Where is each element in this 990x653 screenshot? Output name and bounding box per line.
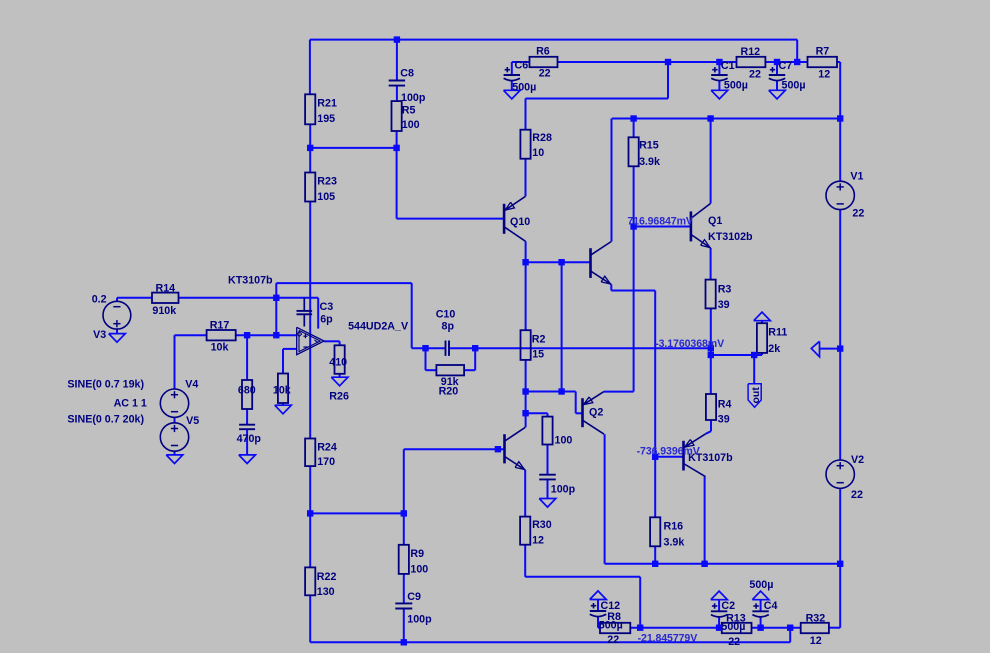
svg-text:500µ: 500µ (749, 579, 773, 591)
svg-text:R20: R20 (439, 385, 459, 397)
svg-text:R15: R15 (639, 140, 659, 152)
svg-text:C2: C2 (721, 600, 735, 612)
svg-text:680: 680 (238, 385, 256, 397)
svg-text:C9: C9 (407, 591, 421, 603)
svg-text:100p: 100p (551, 484, 576, 496)
svg-text:3.9k: 3.9k (639, 156, 660, 168)
svg-text:10k: 10k (211, 341, 229, 353)
svg-text:-3.1760368mV: -3.1760368mV (655, 338, 724, 350)
svg-text:SINE(0 0.7 20k): SINE(0 0.7 20k) (67, 414, 144, 426)
svg-text:R23: R23 (317, 176, 337, 188)
svg-text:12: 12 (532, 534, 544, 546)
svg-text:R14: R14 (156, 283, 176, 295)
svg-text:100: 100 (555, 435, 573, 447)
svg-text:C1: C1 (721, 60, 735, 72)
svg-text:R12: R12 (741, 46, 761, 58)
svg-text:500µ: 500µ (512, 81, 536, 93)
svg-text:C6: C6 (515, 59, 529, 71)
svg-text:39: 39 (718, 413, 730, 425)
svg-text:130: 130 (317, 586, 335, 598)
svg-text:22: 22 (852, 207, 864, 219)
svg-text:R26: R26 (329, 391, 349, 403)
svg-text:410: 410 (329, 356, 347, 368)
svg-text:C10: C10 (436, 309, 456, 321)
svg-text:R2: R2 (532, 333, 546, 345)
svg-text:6p: 6p (320, 314, 333, 326)
svg-text:12: 12 (818, 69, 830, 81)
svg-text:500µ: 500µ (724, 80, 748, 92)
svg-text:V4: V4 (185, 379, 198, 391)
svg-text:22: 22 (607, 634, 619, 646)
svg-text:470p: 470p (237, 433, 262, 445)
svg-text:R7: R7 (816, 46, 830, 58)
svg-text:R9: R9 (410, 548, 424, 560)
svg-text:Q2: Q2 (589, 407, 603, 419)
svg-text:Q1: Q1 (708, 215, 722, 227)
svg-text:Q10: Q10 (510, 216, 530, 228)
svg-text:R28: R28 (532, 132, 552, 144)
svg-text:10: 10 (532, 147, 544, 159)
svg-text:544UD2A_V: 544UD2A_V (348, 321, 409, 333)
svg-text:716.96847mV: 716.96847mV (627, 215, 692, 227)
svg-text:V1: V1 (850, 171, 863, 183)
svg-text:-736.9396mV: -736.9396mV (637, 445, 700, 457)
svg-text:15: 15 (532, 348, 544, 360)
svg-text:22: 22 (851, 489, 863, 501)
svg-text:R3: R3 (718, 284, 732, 296)
svg-text:C4: C4 (764, 600, 778, 612)
svg-text:195: 195 (317, 113, 335, 125)
svg-text:R24: R24 (317, 442, 337, 454)
svg-text:12: 12 (810, 635, 822, 647)
svg-text:10k: 10k (273, 385, 291, 397)
svg-text:V2: V2 (851, 454, 864, 466)
svg-text:KT3107b: KT3107b (228, 275, 273, 287)
svg-text:V3: V3 (93, 329, 106, 341)
svg-text:R6: R6 (536, 46, 550, 58)
svg-text:R21: R21 (317, 98, 337, 110)
svg-text:R17: R17 (210, 319, 230, 331)
svg-text:910k: 910k (152, 305, 176, 317)
svg-text:100: 100 (402, 119, 420, 131)
svg-text:R4: R4 (718, 398, 732, 410)
svg-text:R5: R5 (402, 105, 416, 117)
svg-text:500µ: 500µ (599, 619, 623, 631)
svg-text:170: 170 (317, 456, 335, 468)
svg-text:C8: C8 (400, 67, 414, 79)
svg-text:22: 22 (749, 69, 761, 81)
svg-text:8p: 8p (442, 321, 455, 333)
svg-text:AC 1 1: AC 1 1 (114, 398, 147, 410)
svg-text:100p: 100p (407, 613, 432, 625)
svg-text:100p: 100p (401, 92, 426, 104)
svg-text:R11: R11 (768, 326, 787, 338)
svg-text:R32: R32 (806, 613, 826, 625)
svg-text:KT3102b: KT3102b (708, 231, 753, 243)
svg-text:R16: R16 (664, 520, 684, 532)
svg-text:C3: C3 (320, 301, 334, 313)
svg-text:V5: V5 (186, 415, 199, 427)
svg-text:22: 22 (728, 636, 740, 648)
svg-text:39: 39 (718, 299, 730, 311)
svg-text:R22: R22 (317, 571, 337, 583)
svg-text:2k: 2k (768, 343, 780, 355)
svg-text:500µ: 500µ (782, 80, 806, 92)
svg-text:3.9k: 3.9k (664, 536, 685, 548)
svg-text:R30: R30 (532, 519, 552, 531)
svg-text:500µ: 500µ (721, 621, 745, 633)
svg-text:105: 105 (317, 191, 335, 203)
svg-text:out: out (750, 387, 762, 404)
svg-text:SINE(0 0.7 19k): SINE(0 0.7 19k) (67, 379, 144, 391)
svg-text:100: 100 (410, 564, 428, 576)
svg-text:0.2: 0.2 (92, 293, 107, 305)
svg-text:22: 22 (539, 67, 551, 79)
svg-text:C7: C7 (779, 60, 793, 72)
svg-text:-21.845779V: -21.845779V (638, 633, 698, 645)
